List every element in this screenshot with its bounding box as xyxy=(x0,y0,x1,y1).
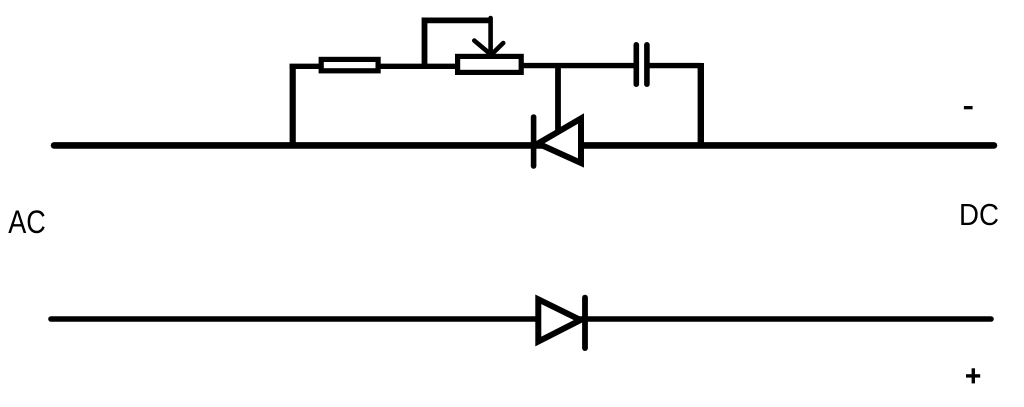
wire: top rail (AC to DC negative line) xyxy=(54,142,994,149)
wire: right vertical drop from capacitor branch to top rail xyxy=(698,63,704,145)
wire: bottom rail (AC to DC positive line) xyxy=(51,316,991,322)
potentiometer R2 body xyxy=(458,56,522,72)
svg-text:AC: AC xyxy=(8,204,46,240)
wire: horizontal branch segment from left drop to resistor and potentiometer xyxy=(290,64,460,69)
capacitor C1 xyxy=(636,45,647,84)
polarity label minus (top right) xyxy=(964,106,973,109)
svg-text:DC: DC xyxy=(959,198,999,232)
diode D2 on bottom rail (triangle pointing right, cathode bar right) xyxy=(538,298,585,349)
potentiometer wiper arrow (shaft and barbs) xyxy=(474,18,503,55)
resistor R1 xyxy=(321,59,378,70)
wire: horizontal branch segment from potentiometer to capacitor left plate xyxy=(520,63,634,68)
wire: feedback loop over potentiometer wiper xyxy=(425,20,491,64)
polarity label plus (bottom right) xyxy=(966,368,980,383)
wire: left vertical branch drop to top rail xyxy=(290,64,296,145)
wire: gate drop from branch junction down to diac/SCR top edge xyxy=(555,66,561,138)
diode D1 on top rail (cathode bar left, triangle pointing left) xyxy=(534,117,581,166)
wire: horizontal branch segment from capacitor right plate to right drop xyxy=(650,63,701,68)
